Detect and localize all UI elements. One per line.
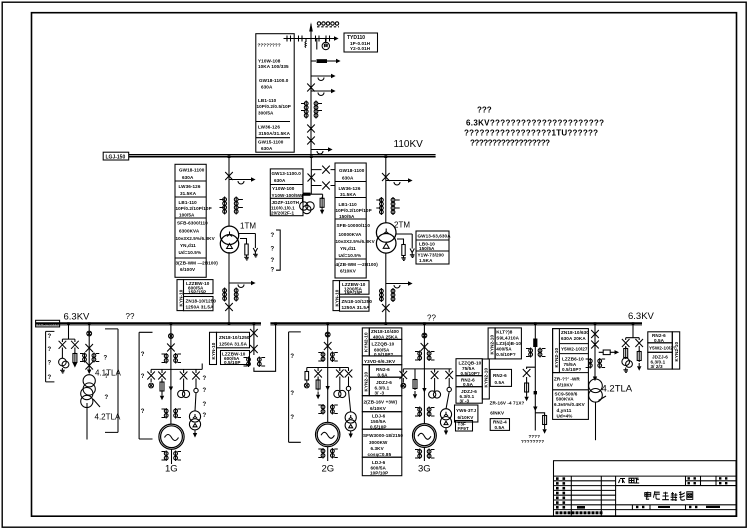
breaker ZN18 1TM: [225, 303, 233, 311]
wire branch left with series gaps: [284, 38, 312, 40]
wire 1TM bay: [228, 157, 230, 227]
wire 2G main: [327, 325, 329, 422]
label box LDJ2 middle: [362, 457, 402, 476]
svg-text:YN,d11: YN,d11: [340, 246, 356, 251]
CT group 2G mid: [318, 404, 338, 415]
svg-text:Y10W-100/5W: Y10W-100/5W: [272, 193, 303, 198]
svg-text:10P/0.2/10P/10P: 10P/0.2/10P/10P: [176, 206, 212, 211]
svg-text:KYN2-10: KYN2-10: [554, 348, 559, 368]
svg-text:GW15-1100: GW15-1100: [258, 140, 284, 145]
label box LDJ middle: [362, 412, 402, 430]
wire 3G main: [423, 325, 425, 423]
company name row: [556, 511, 603, 514]
svg-text:Y5W2-10/27: Y5W2-10/27: [561, 347, 588, 352]
title block right header cells: [616, 476, 736, 486]
cubicle KYN-10 2TM: [333, 281, 340, 311]
label box Y5W2 right PT: [648, 343, 673, 353]
CT group 1G upper: [162, 353, 182, 364]
svg-text:??: ??: [126, 312, 135, 321]
svg-text:2(ZB-16V +3W): 2(ZB-16V +3W): [364, 400, 398, 405]
svg-text:?: ?: [105, 395, 109, 401]
disconnect branch lower: [311, 182, 335, 190]
cubicle KYN-10 1TM: [177, 280, 184, 311]
label box LZZBW 1TM: [184, 280, 214, 294]
svg-text:FF9T: FF9T: [458, 426, 469, 431]
bracket with notes: [276, 230, 280, 270]
svg-text:6/NKV: 6/NKV: [490, 411, 505, 416]
transformer 3G excitation: [440, 409, 451, 428]
label column 2TM: [335, 163, 366, 278]
wire 2TM neutral: [396, 234, 413, 245]
breaker LW36 on line: [307, 125, 315, 133]
svg-text:?: ?: [290, 354, 294, 360]
wire 3G split: [403, 369, 451, 373]
svg-text:GW18-1100.0: GW18-1100.0: [259, 78, 289, 83]
label box ZN18 2TM: [340, 297, 370, 311]
svg-text:6.3KV: 6.3KV: [628, 311, 655, 322]
disconnect contacts right branch: [316, 36, 330, 42]
CVT with counter: [317, 39, 330, 50]
svg-text:RN2-6: RN2-6: [493, 373, 507, 378]
label box JDZJ right PT: [648, 352, 673, 369]
drawout arrow 2G main: [326, 386, 330, 391]
junction dots left 6.3kv bus: [67, 322, 255, 325]
right header cell marks: [688, 477, 728, 484]
title block lower cells: [616, 505, 736, 510]
breaker 1G: [169, 334, 174, 339]
fuse cutout 1G branch4: [192, 372, 200, 380]
svg-text:3G: 3G: [418, 464, 431, 475]
fuse cutout 2G branch4: [345, 370, 353, 378]
svg-text:10±3X2.5%/6.3KV: 10±3X2.5%/6.3KV: [336, 239, 376, 244]
svg-text:KYN-10: KYN-10: [211, 342, 216, 359]
svg-text:?: ?: [271, 268, 275, 274]
svg-text:400/5A: 400/5A: [496, 346, 512, 351]
CT group 2G upper: [318, 352, 338, 363]
ground 2TM arrester: [410, 253, 415, 258]
ground 1TM neutral arrester: [253, 252, 258, 257]
wire 2G split: [307, 368, 349, 372]
svg-text:??: ??: [427, 314, 436, 323]
svg-text:3000KW: 3000KW: [369, 440, 388, 445]
svg-text:?: ?: [141, 352, 145, 358]
svg-text:630A: 630A: [261, 85, 273, 90]
label column 1TM: [175, 164, 206, 277]
wire PT bay: [303, 157, 323, 199]
transformer 1TM: [220, 226, 238, 253]
svg-text:1250A 31.5A: 1250A 31.5A: [219, 342, 248, 347]
drawout contact branch 2: [311, 89, 336, 96]
label box incoming equipment: [256, 34, 294, 153]
svg-text:31.5KA: 31.5KA: [340, 192, 357, 197]
svg-text:LZZB6-10: LZZB6-10: [562, 357, 584, 362]
svg-text:?: ?: [290, 391, 294, 397]
label column PT bay: [270, 169, 303, 216]
svg-text:15P/15P: 15P/15P: [188, 289, 206, 294]
svg-text:150/5A: 150/5A: [371, 419, 387, 424]
branch symbol right of column: [599, 350, 619, 355]
svg-text:KYN-10: KYN-10: [179, 289, 184, 306]
fuse far right aux right branch: [543, 414, 547, 426]
arrow 3G excitation: [444, 428, 448, 435]
lamp 3G PT branch: [401, 378, 406, 388]
svg-text:KYN2-10: KYN2-10: [490, 335, 495, 355]
disconnect far right aux left branch: [523, 369, 531, 377]
svg-text:?: ?: [290, 415, 294, 421]
bracket notes right of TLA: [105, 329, 118, 433]
label box LZZBW 1G: [221, 351, 250, 365]
svg-text:KYN2-10: KYN2-10: [364, 332, 369, 352]
svg-text:3150A/31.5KA: 3150A/31.5KA: [259, 131, 291, 136]
cubicle KYN2-10 upper: [362, 328, 369, 356]
svg-text:630A: 630A: [342, 176, 354, 181]
CT LB1-110 group: [301, 101, 322, 119]
wire 1G split: [151, 364, 202, 374]
arrow right branch: [73, 363, 77, 368]
CT group 2TM: [376, 197, 399, 215]
junction dots right 6.3kv bus: [274, 322, 634, 325]
wire 2TM bay: [385, 157, 387, 223]
svg-text:?: ?: [203, 376, 207, 382]
arrow incoming line top: [309, 22, 313, 31]
svg-text:GW18-1100: GW18-1100: [339, 168, 365, 173]
label box LZZBW 2TM: [340, 281, 370, 295]
svg-text:ZR-16V -4 71X?: ZR-16V -4 71X?: [490, 401, 525, 406]
svg-text:ZN18-10/1250: ZN18-10/1250: [186, 299, 217, 304]
svg-text:????????: ????????: [521, 439, 544, 444]
disconnect on PT bay wire: [308, 174, 316, 182]
svg-text:15P/15P: 15P/15P: [344, 290, 362, 295]
label column 4.2TLA: [553, 329, 589, 420]
wire left branch: [61, 348, 63, 359]
breaker 2G: [325, 332, 330, 337]
arrow 4.2TLA: [593, 377, 597, 382]
drawout contact branch: [311, 74, 336, 81]
svg-text:630A: 630A: [274, 178, 286, 183]
svg-text:3/ -3: 3/ -3: [460, 399, 470, 404]
fuse cutout 3G branch4: [445, 371, 453, 379]
label box TLA feeder: [36, 320, 60, 327]
svg-text:1G: 1G: [165, 464, 178, 475]
disconnect GW15 on line: [307, 137, 315, 145]
svg-text:6/10KV: 6/10KV: [458, 415, 475, 420]
wire 1TM neutral: [239, 234, 256, 245]
svg-text:LGJ-150: LGJ-150: [106, 155, 126, 161]
fuse cutout right PT right: [635, 339, 643, 347]
wire right PT feeder: [626, 325, 640, 340]
CT group 3G mid: [415, 407, 435, 418]
svg-text:31.5KA: 31.5KA: [180, 191, 197, 196]
disconnect on 1TM bay: [225, 172, 233, 180]
svg-text:?: ?: [48, 334, 52, 340]
svg-text:630A: 630A: [261, 146, 273, 151]
label box ZN18 1G: [217, 332, 250, 348]
svg-text:???: ???: [477, 106, 492, 115]
transformer 4.1TLA: [83, 375, 95, 395]
fuse cutout 2G branch2: [314, 370, 322, 378]
svg-text:?: ?: [105, 374, 109, 380]
svg-text:?: ?: [48, 375, 52, 381]
svg-text:10P/0.2/10P/10P: 10P/0.2/10P/10P: [336, 208, 372, 213]
transformer 4.2TLA: [589, 379, 606, 402]
svg-text:3/ -3: 3/ -3: [375, 391, 385, 396]
svg-text:?: ?: [48, 361, 52, 367]
svg-text:KYN-10: KYN-10: [335, 289, 340, 306]
arrow 1G branch2: [160, 393, 164, 401]
disconnect 1G: [167, 344, 175, 352]
lower cell marks: [636, 506, 720, 508]
CT group 1TM: [220, 197, 243, 215]
label box SFW middle: [362, 429, 402, 457]
svg-text:6.3KV: 6.3KV: [64, 312, 91, 323]
svg-text:10±3X2.5%/6.3KV: 10±3X2.5%/6.3KV: [176, 236, 216, 241]
title block top band line: [554, 475, 737, 477]
fuse cutout 1G branch3: [180, 372, 188, 380]
fuse cutout left branch: [59, 341, 67, 349]
transformer 2G excitation: [345, 412, 356, 431]
resistor 1TM neutral: [245, 244, 248, 255]
svg-text:?: ?: [104, 356, 108, 362]
bus 6.3KV section II: [270, 322, 642, 324]
fuse far right aux left branch: [525, 377, 529, 394]
svg-text:ZN18-10/400: ZN18-10/400: [371, 329, 399, 334]
label box YW6 3G: [455, 405, 478, 422]
svg-text:0.5/10P: 0.5/10P: [370, 424, 387, 429]
svg-text:LB1-110: LB1-110: [258, 98, 277, 103]
fuse cutout right branch: [71, 341, 79, 349]
svg-text:1TM: 1TM: [240, 222, 256, 231]
CT group 1G mid: [162, 408, 182, 419]
svg-text:RN2-6: RN2-6: [376, 367, 390, 372]
label box arrester middle: [362, 356, 402, 365]
svg-text:LB1-110: LB1-110: [179, 200, 198, 205]
fuse cutout 2G branch3: [336, 370, 344, 378]
disconnect 4.2TLA lower: [591, 341, 599, 349]
svg-text:6300KVA: 6300KVA: [179, 229, 200, 234]
svg-text:2TM: 2TM: [394, 221, 410, 230]
disconnect 3G: [421, 343, 429, 351]
label box 2TM neutral equipment: [416, 231, 449, 264]
ground PT left: [60, 368, 65, 373]
svg-text:GW13-63,630A: GW13-63,630A: [418, 234, 452, 239]
bus 6.3KV section I: [36, 322, 261, 324]
svg-text:150/5A: 150/5A: [339, 214, 355, 219]
svg-text:20/20/2F-1: 20/20/2F-1: [271, 211, 295, 216]
fuse 1G branch2: [160, 379, 164, 393]
arrester coil on left branch: [305, 39, 306, 48]
svg-text:3(ZB-WM —2B100): 3(ZB-WM —2B100): [176, 261, 219, 266]
wire incoming line: [310, 24, 312, 155]
PT right feeder: [622, 358, 632, 367]
fuse cutout right PT left: [622, 339, 630, 347]
svg-text:d,yn11: d,yn11: [557, 408, 572, 413]
svg-text:GW18-1100: GW18-1100: [179, 168, 205, 173]
svg-text:ZR-??' -WR: ZR-??' -WR: [554, 377, 580, 382]
svg-text:YW6-3TJ: YW6-3TJ: [456, 408, 476, 413]
wire 3G excitation: [446, 378, 451, 409]
svg-text:KYN2-10: KYN2-10: [674, 342, 679, 362]
svg-text:3/ 2/3: 3/ 2/3: [651, 364, 663, 369]
PT left feeder: [59, 358, 69, 368]
svg-text:?: ?: [271, 247, 275, 253]
bracket notes left of 1G: [139, 332, 152, 439]
separator line: [256, 121, 290, 123]
CT group 1G bottom: [162, 449, 182, 464]
svg-text:Ud=10.5%: Ud=10.5%: [339, 253, 362, 258]
junction dots 110kV bus: [228, 155, 388, 158]
svg-text:LZZQB-10: LZZQB-10: [372, 342, 395, 347]
CT group bus tie: [244, 357, 266, 368]
svg-text:LDJ-6: LDJ-6: [372, 414, 386, 419]
svg-text:4(ZB-WM —2B100): 4(ZB-WM —2B100): [336, 262, 379, 267]
fuse right PT left: [624, 346, 628, 359]
disconnect 2G: [324, 342, 332, 350]
arrow far right aux left branch: [524, 394, 528, 402]
title block left table: [554, 476, 737, 516]
svg-text:????????: ????????: [258, 43, 281, 48]
label box ZN18 middle: [369, 328, 402, 340]
svg-text:1250A 31.5A: 1250A 31.5A: [342, 305, 371, 310]
fuse cutout 3G branch3: [431, 371, 439, 379]
svg-text:10KA 100/335: 10KA 100/335: [258, 64, 289, 69]
generator 3G: [413, 424, 437, 448]
svg-text:4.2TLA: 4.2TLA: [95, 413, 121, 422]
svg-text:4.2TLA: 4.2TLA: [602, 384, 633, 395]
fuse cutout 1G branch2: [158, 372, 166, 380]
svg-text:10P/0.2/0.5/10P: 10P/0.2/0.5/10P: [257, 104, 291, 109]
label box TBP 3G: [456, 421, 473, 432]
svg-text:110KV: 110KV: [394, 139, 424, 150]
arrow 1G excitation: [193, 430, 197, 438]
fuse 2G PT branch: [305, 372, 309, 383]
arrow 3G branch2: [413, 391, 417, 399]
ground 1TM neutral resistor: [244, 255, 249, 260]
breaker TLA: [87, 331, 92, 336]
svg-text:LW36-126: LW36-126: [258, 125, 280, 130]
label box RN2 right PT: [648, 332, 673, 343]
svg-text:?: ?: [271, 233, 275, 239]
svg-text:6/10KV: 6/10KV: [370, 406, 387, 411]
disconnect TLA lower: [85, 362, 93, 370]
svg-text:150/5A: 150/5A: [419, 246, 435, 251]
label box LZZQB middle: [369, 339, 402, 356]
label box RN2-6 far right: [490, 369, 511, 386]
drawout contact 2TM upper: [386, 178, 413, 185]
svg-text:GW13-1100.0: GW13-1100.0: [272, 171, 302, 176]
generator 2G: [316, 422, 340, 446]
title 电气主接线图: [645, 491, 693, 501]
separator line: [256, 137, 290, 139]
arrow 2G excitation: [349, 431, 353, 438]
arrow 2G branch2: [316, 392, 320, 400]
junction dot far right aux: [534, 391, 537, 394]
svg-text:?: ?: [203, 402, 207, 408]
svg-text:6.3KV??????????????????????: 6.3KV??????????????????????: [466, 119, 604, 128]
CT group 2TM lower: [380, 288, 395, 302]
cubicle strip 4.2TLA: [553, 329, 560, 373]
label box RN2 middle: [369, 365, 402, 378]
drawout arrow 1G main: [169, 387, 173, 392]
disconnect branch upper: [311, 166, 335, 174]
svg-text:LZ3(4)B-10: LZ3(4)B-10: [496, 341, 521, 346]
svg-text:400A 25KA: 400A 25KA: [373, 334, 398, 339]
left table cell marks: [556, 477, 585, 508]
node marker circles top: [317, 22, 339, 27]
wire TLA down: [86, 403, 88, 440]
label box RN2 3G: [456, 376, 482, 387]
svg-text:Ud=10.5%: Ud=10.5%: [179, 250, 202, 255]
label box JDZJ 3G: [456, 387, 482, 404]
svg-text:630A 20KA: 630A 20KA: [561, 336, 586, 341]
wire TLA feeder: [88, 325, 90, 373]
wire bus tie: [254, 323, 276, 371]
label box TYD110: [344, 33, 378, 52]
wire PT feeder left: [62, 325, 75, 342]
svg-text:KLT?)8: KLT?)8: [496, 329, 512, 334]
cubicle strip far right: [488, 328, 495, 359]
label box RN2-4 far right: [490, 419, 509, 431]
generator 1G: [159, 424, 184, 449]
fuse 3G branch2: [413, 373, 417, 391]
wire 4.2TLA down: [595, 402, 597, 441]
svg-text:Y1W-73/200: Y1W-73/200: [418, 253, 445, 258]
drawout contact 1TM lower: [229, 281, 256, 288]
svg-text:?: ?: [48, 347, 52, 353]
disconnect on 2TM bay: [382, 173, 390, 181]
CT group 3G upper: [415, 351, 435, 362]
svg-text:6.3±5%/0.4KV: 6.3±5%/0.4KV: [554, 402, 586, 407]
wire far right aux feeder: [527, 325, 545, 431]
ground 2TM resistor: [401, 256, 406, 261]
label box LZZQB 3G: [456, 359, 482, 376]
arrow right PT right branch: [637, 363, 641, 371]
svg-text:2G: 2G: [322, 464, 335, 475]
svg-text:SFB-6300/110: SFB-6300/110: [177, 221, 208, 226]
svg-text:KYN2-10: KYN2-10: [364, 372, 369, 392]
PT 2G branch3: [334, 377, 346, 398]
label box JDZJ middle: [369, 377, 402, 396]
svg-text:SFB-10000/110: SFB-10000/110: [337, 223, 371, 228]
svg-text:630A: 630A: [182, 175, 194, 180]
bus 110KV: [129, 154, 436, 156]
svg-text:Ud=4%: Ud=4%: [557, 414, 573, 419]
arrester 2TM neutral: [410, 245, 414, 253]
bracket notes left of 2G: [289, 332, 301, 442]
label 水电站: [619, 478, 640, 483]
PT 3G branch3: [429, 378, 441, 398]
fuse far right aux main: [533, 339, 537, 348]
svg-text:?: ?: [203, 388, 207, 394]
breaker ZN18 2TM: [382, 304, 390, 312]
disconnect 4.2TLA upper: [591, 330, 599, 338]
wire right branch: [74, 348, 76, 355]
svg-text:0.5A: 0.5A: [654, 338, 665, 343]
wire branch right to CVT: [311, 38, 334, 40]
arrester 1TM neutral: [253, 244, 257, 252]
svg-text:0.5A: 0.5A: [495, 380, 506, 385]
svg-text:Y10W-100: Y10W-100: [272, 186, 295, 191]
svg-text:Y2-0.01H: Y2-0.01H: [350, 46, 371, 51]
transformer 1G excitation: [189, 411, 200, 430]
CT group 3G bottom: [415, 447, 435, 461]
ground right PT: [623, 368, 628, 373]
svg-text:1250A 31.5A: 1250A 31.5A: [186, 305, 215, 310]
junction blob: [304, 193, 311, 196]
svg-text:JDZF-110TH: JDZF-110TH: [272, 200, 300, 205]
drawout arrow far right aux: [533, 407, 537, 412]
CT group 2G bottom: [318, 447, 338, 461]
svg-text:6.3KV: 6.3KV: [371, 446, 385, 451]
